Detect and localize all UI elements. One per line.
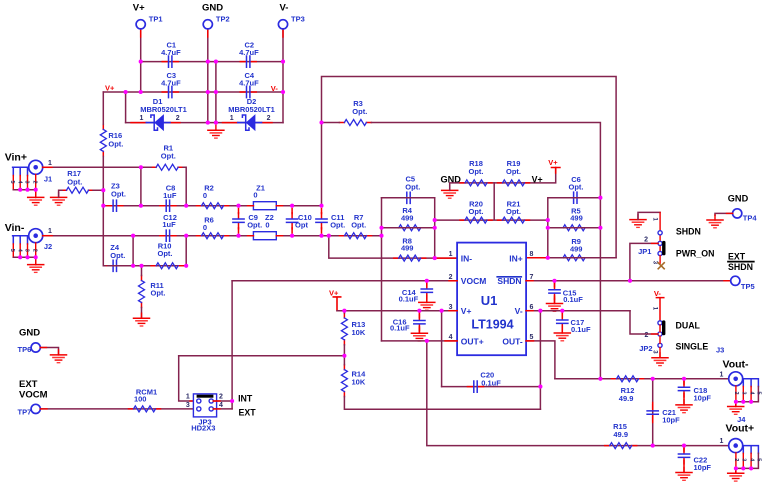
- svg-text:1: 1: [652, 218, 658, 222]
- wire R1 bypass loop: [141, 167, 186, 205]
- wire R4 row: [382, 227, 435, 229]
- testpoint TP1: [136, 20, 145, 29]
- svg-text:5: 5: [756, 458, 762, 461]
- ground (C18): [676, 400, 692, 413]
- svg-text:49.9: 49.9: [613, 430, 628, 439]
- svg-text:Opt.: Opt.: [247, 220, 262, 229]
- wire TP7 to RCM1 to JP3: [40, 408, 196, 410]
- wire R13 column: [343, 311, 345, 356]
- svg-text:Opt: Opt: [295, 220, 308, 229]
- wire OUT- feedback column: [599, 198, 601, 379]
- svg-text:Opt.: Opt.: [108, 139, 123, 148]
- svg-text:TP1: TP1: [149, 15, 163, 24]
- wire V+ testpoint column: [140, 29, 142, 92]
- wire D1 anode branch: [125, 92, 127, 123]
- wire R14 column and bottom row to V-: [344, 356, 540, 409]
- svg-text:Opt.: Opt.: [506, 167, 521, 176]
- wire R3 row: [322, 123, 601, 198]
- svg-text:GND: GND: [19, 328, 40, 339]
- svg-text:2: 2: [644, 237, 648, 244]
- svg-text:0.1uF: 0.1uF: [399, 295, 419, 304]
- svg-text:Opt.: Opt.: [330, 220, 345, 229]
- ground (C14): [419, 297, 435, 310]
- svg-text:10pF: 10pF: [694, 463, 712, 472]
- svg-text:OUT+: OUT+: [461, 336, 484, 346]
- svg-text:GND: GND: [202, 3, 223, 14]
- wire R20 R21 row: [435, 183, 548, 220]
- svg-text:2: 2: [644, 332, 648, 339]
- svg-text:Opt.: Opt.: [110, 251, 125, 260]
- svg-text:MBR0520LT1: MBR0520LT1: [228, 105, 275, 114]
- capacitor C16 0.1uF: [390, 311, 425, 333]
- wire C3 C4 row (V+ to V-): [103, 91, 283, 93]
- wire R16 column (V+ tap down to input network): [103, 92, 107, 266]
- svg-text:1: 1: [48, 160, 52, 167]
- wire VOCM column to JP3: [231, 281, 233, 409]
- svg-text:4: 4: [16, 249, 22, 253]
- svg-text:TP6: TP6: [18, 345, 32, 354]
- capacitor C17 0.1uF: [557, 311, 591, 334]
- ground (JP1): [630, 215, 646, 228]
- resistor R3 Opt.: [339, 99, 371, 126]
- ground (R11): [134, 313, 150, 326]
- svg-text:4: 4: [449, 334, 453, 341]
- capacitor C14 0.1uF: [399, 281, 433, 304]
- svg-text:49.9: 49.9: [619, 394, 634, 403]
- resistor R4 499: [394, 206, 426, 231]
- wire middle ground column: [215, 62, 217, 123]
- svg-text:0.1uF: 0.1uF: [481, 378, 501, 387]
- svg-text:5: 5: [9, 249, 15, 252]
- capacitor C2 4.7uF: [239, 40, 259, 67]
- testpoint TP2: [203, 20, 212, 29]
- wire Vin+ processed row: [103, 205, 321, 207]
- svg-text:MBR0520LT1: MBR0520LT1: [140, 105, 187, 114]
- svg-text:VOCM: VOCM: [19, 389, 48, 400]
- svg-text:EXT: EXT: [239, 407, 257, 417]
- ground (TP6): [51, 350, 67, 363]
- connector J4 Vout+: [720, 415, 762, 473]
- svg-text:VOCM: VOCM: [461, 276, 487, 286]
- ground (J1 shield): [28, 192, 44, 205]
- svg-text:5: 5: [9, 181, 15, 184]
- svg-text:SHDN: SHDN: [728, 262, 753, 272]
- resistor R14 10K: [341, 365, 366, 397]
- node EXT VOCM: [19, 379, 48, 401]
- svg-text:Opt.: Opt.: [111, 189, 126, 198]
- resistor R2 0: [197, 183, 229, 208]
- power V- flag (JP2): [654, 289, 664, 321]
- capacitor C8 1uF: [160, 183, 177, 211]
- svg-text:V+: V+: [329, 288, 339, 297]
- wire JP3 row to R13/R14: [179, 355, 345, 357]
- wire diode row: [126, 122, 283, 124]
- svg-text:Opt.: Opt.: [469, 167, 484, 176]
- svg-text:10pF: 10pF: [694, 394, 712, 403]
- svg-text:TP3: TP3: [291, 15, 305, 24]
- svg-text:0: 0: [203, 191, 207, 200]
- svg-text:10K: 10K: [352, 328, 366, 337]
- svg-text:Opt.: Opt.: [67, 177, 82, 186]
- svg-text:4.7uF: 4.7uF: [239, 79, 259, 88]
- svg-text:EXT: EXT: [728, 252, 746, 262]
- ground (R18 left): [442, 185, 458, 198]
- node EXT SHDN: [728, 252, 754, 273]
- svg-text:HD2X3: HD2X3: [191, 424, 215, 433]
- ground (J2 shield): [28, 260, 44, 273]
- svg-text:5: 5: [756, 392, 762, 395]
- wire V- testpoint column: [282, 29, 284, 123]
- resistor R18 Opt.: [460, 159, 492, 186]
- wire C20 left column (V+ tap): [441, 311, 443, 387]
- svg-text:499: 499: [570, 244, 583, 253]
- svg-text:2: 2: [449, 274, 453, 281]
- capacitor C4 4.7uF: [239, 71, 259, 98]
- resistor R9 499: [558, 237, 590, 261]
- op-amp U1 LT1994: [457, 243, 526, 356]
- connector J1 Vin+: [5, 151, 53, 197]
- svg-text:2: 2: [733, 392, 739, 395]
- svg-text:EXT: EXT: [19, 379, 38, 390]
- svg-text:0.1uF: 0.1uF: [571, 325, 591, 334]
- resistor R10 Opt.: [151, 241, 183, 268]
- svg-text:499: 499: [401, 213, 414, 222]
- svg-text:V-: V-: [271, 84, 279, 93]
- wire R11 to ground: [141, 266, 143, 318]
- ferrite Z2 Opt.0: [248, 213, 283, 240]
- wire OUT- pin5 to R12: [526, 341, 555, 379]
- wire V+ pin3 row: [337, 310, 457, 312]
- ground (TP4): [707, 215, 723, 228]
- capacitor C10 Opt: [287, 209, 312, 234]
- power V+ flag (R13 / pin3): [329, 288, 341, 310]
- resistor R15 49.9: [605, 422, 637, 448]
- svg-text:Opt.: Opt.: [352, 107, 367, 116]
- svg-text:1: 1: [186, 394, 190, 401]
- ground (C17): [554, 328, 570, 341]
- svg-text:1: 1: [48, 228, 52, 235]
- wire JP2 pin2 to V-: [630, 311, 658, 334]
- wire SHDN pin7 row to TP5: [526, 280, 731, 282]
- wire R10 loop: [108, 236, 187, 266]
- svg-text:499: 499: [570, 214, 583, 223]
- capacitor C15 0.1uF: [549, 281, 583, 304]
- svg-text:Opt.: Opt.: [161, 152, 176, 161]
- svg-text:0: 0: [203, 223, 207, 232]
- svg-text:J1: J1: [44, 174, 52, 183]
- wire IN- node column: [435, 198, 457, 258]
- svg-text:JP2: JP2: [639, 344, 652, 353]
- svg-text:3: 3: [741, 458, 747, 461]
- resistor R21 Opt.: [498, 199, 530, 223]
- ground (C22): [676, 468, 692, 481]
- svg-text:Vin+: Vin+: [5, 151, 27, 163]
- wire top feedback loop: [322, 77, 617, 258]
- svg-text:1: 1: [652, 307, 658, 311]
- svg-text:LT1994: LT1994: [471, 317, 513, 331]
- svg-text:DUAL: DUAL: [676, 320, 701, 330]
- wire OUT+ to Vout+ bottom run: [427, 341, 728, 446]
- resistor R1 Opt.: [151, 144, 183, 171]
- ferrite Z1 0: [248, 183, 283, 209]
- capacitor C21 10pF: [647, 379, 680, 446]
- diode D1 MBR0520LT1: [140, 97, 187, 130]
- capacitor C12 1uF: [160, 213, 177, 241]
- wire R5 row: [548, 227, 601, 229]
- wire V- pin6 row: [526, 310, 630, 312]
- wire Vin- row: [43, 235, 382, 237]
- testpoint TP4: [733, 209, 758, 223]
- wire JP3 pin1 branch: [179, 356, 197, 401]
- svg-text:OUT-: OUT-: [502, 336, 522, 346]
- wire VOCM net row: [232, 280, 457, 282]
- svg-text:Opt.: Opt.: [469, 207, 484, 216]
- svg-text:499: 499: [401, 244, 414, 253]
- svg-text:100: 100: [134, 395, 147, 404]
- wire R17 to ground / to node: [59, 190, 104, 197]
- svg-text:2: 2: [267, 115, 271, 122]
- resistor R11 Opt.: [139, 276, 166, 308]
- svg-text:V+: V+: [133, 3, 145, 14]
- svg-text:1uF: 1uF: [162, 220, 176, 229]
- svg-text:TP2: TP2: [216, 15, 230, 24]
- svg-text:3: 3: [24, 249, 30, 252]
- svg-text:Opt.: Opt.: [151, 289, 166, 298]
- svg-text:V-: V-: [654, 289, 662, 298]
- svg-text:Vout-: Vout-: [723, 359, 750, 371]
- wire C1 C2 row: [141, 61, 283, 63]
- svg-text:V+: V+: [548, 158, 558, 167]
- svg-text:1uF: 1uF: [163, 191, 177, 200]
- resistor R16 Opt.: [100, 124, 123, 156]
- capacitor Z3 Opt.: [107, 181, 126, 211]
- testpoint TP5: [731, 276, 755, 291]
- svg-text:5: 5: [530, 334, 534, 341]
- svg-text:Vin-: Vin-: [5, 222, 25, 234]
- wire TP4 to ground: [715, 213, 733, 215]
- svg-text:SHDN: SHDN: [497, 276, 521, 286]
- capacitor C5 Opt.: [401, 175, 421, 204]
- svg-text:V+: V+: [105, 84, 115, 93]
- wire JP3 pin2/pin4 to VOCM column: [213, 401, 232, 409]
- svg-text:INT: INT: [238, 394, 253, 404]
- ground (JP2): [652, 353, 668, 366]
- svg-text:SHDN: SHDN: [676, 226, 701, 236]
- svg-text:4: 4: [219, 402, 223, 409]
- svg-text:6: 6: [530, 304, 534, 311]
- svg-text:10K: 10K: [352, 377, 366, 386]
- svg-text:V+: V+: [532, 175, 543, 185]
- svg-text:TP7: TP7: [18, 407, 32, 416]
- svg-text:JP1: JP1: [638, 247, 651, 256]
- svg-text:Opt.: Opt.: [158, 249, 173, 258]
- power V+ flag (above R19): [548, 158, 560, 173]
- capacitor C3 4.7uF: [161, 71, 181, 98]
- svg-text:10pF: 10pF: [662, 415, 680, 424]
- ground (J4 shield): [728, 468, 744, 481]
- wire IN+ pin8 row: [526, 257, 616, 259]
- resistor RCM1 100: [129, 387, 161, 412]
- ground (J3 shield): [728, 402, 744, 415]
- wire feedback node column (to OUT+): [381, 198, 383, 341]
- diode D2 MBR0520LT1: [228, 97, 275, 130]
- capacitor C11 Opt.: [316, 209, 345, 234]
- capacitor C20 0.1uF: [442, 371, 541, 393]
- wire C5 row: [382, 197, 435, 199]
- svg-text:2: 2: [31, 181, 37, 184]
- svg-text:2: 2: [219, 394, 223, 401]
- ground (C16): [411, 328, 427, 341]
- svg-text:1: 1: [449, 251, 453, 258]
- wire TP6 to ground: [40, 348, 58, 355]
- svg-text:Opt.: Opt.: [351, 220, 366, 229]
- svg-text:4.7uF: 4.7uF: [161, 79, 181, 88]
- svg-text:IN+: IN+: [509, 253, 523, 263]
- jumper JP2 DUAL/SINGLE: [639, 307, 665, 358]
- svg-text:3: 3: [449, 304, 453, 311]
- jumper JP3 HD2X3: [186, 394, 223, 433]
- svg-text:Opt.: Opt.: [405, 182, 420, 191]
- testpoint TP7: [18, 404, 41, 416]
- svg-text:2: 2: [31, 249, 37, 252]
- testpoint TP6: [18, 343, 41, 354]
- capacitor C1 4.7uF: [161, 40, 181, 67]
- svg-text:Vout+: Vout+: [726, 423, 755, 435]
- ground (R17): [51, 192, 67, 205]
- resistor R17 Opt.: [62, 169, 94, 193]
- wire J1 pin1 row: [43, 166, 141, 168]
- svg-text:V-: V-: [280, 3, 289, 14]
- capacitor C6 Opt.: [567, 175, 583, 203]
- svg-text:GND: GND: [728, 193, 749, 203]
- svg-text:Opt.: Opt.: [569, 183, 584, 192]
- jumper JP1 PWR_ON: [638, 212, 666, 268]
- svg-text:1: 1: [230, 115, 234, 122]
- wire R12 output row: [555, 378, 729, 380]
- svg-text:J2: J2: [44, 242, 52, 251]
- svg-text:IN-: IN-: [461, 253, 473, 263]
- svg-text:0.1uF: 0.1uF: [563, 295, 583, 304]
- svg-text:0.1uF: 0.1uF: [390, 324, 410, 333]
- wire V- column to C20/R14: [539, 311, 541, 410]
- ground (diode row): [208, 125, 224, 138]
- resistor R20 Opt.: [460, 199, 492, 223]
- svg-text:V+: V+: [461, 306, 472, 316]
- connector J3 Vout-: [716, 346, 762, 407]
- svg-text:2: 2: [176, 115, 180, 122]
- svg-text:3: 3: [652, 350, 658, 354]
- svg-text:0: 0: [253, 190, 257, 199]
- resistor R19 Opt.: [498, 159, 530, 186]
- resistor R8 499: [394, 236, 426, 261]
- svg-text:1: 1: [720, 371, 724, 378]
- resistor R6 0: [197, 216, 229, 239]
- svg-text:J3: J3: [716, 346, 724, 355]
- svg-text:PWR_ON: PWR_ON: [676, 249, 715, 259]
- svg-text:TP5: TP5: [741, 282, 755, 291]
- svg-text:7: 7: [530, 274, 534, 281]
- svg-text:8: 8: [530, 251, 534, 258]
- svg-text:3: 3: [741, 392, 747, 395]
- connector J2 Vin-: [5, 222, 53, 265]
- wire R18 R19 row: [450, 168, 556, 191]
- wire R8 branch: [329, 236, 457, 258]
- svg-text:TP4: TP4: [743, 214, 758, 223]
- resistor R13 10K: [341, 313, 365, 345]
- capacitor C18 10pF: [678, 379, 711, 405]
- svg-text:2: 2: [733, 458, 739, 461]
- resistor R12 49.9: [612, 376, 644, 403]
- svg-text:SINGLE: SINGLE: [676, 342, 709, 352]
- capacitor C22 10pF: [678, 446, 711, 473]
- svg-text:3: 3: [652, 261, 658, 265]
- svg-text:V-: V-: [515, 306, 523, 316]
- capacitor Z4 Opt.: [107, 243, 126, 271]
- svg-text:4.7uF: 4.7uF: [239, 48, 259, 57]
- svg-text:1: 1: [140, 115, 144, 122]
- resistor R7 Opt.: [340, 213, 372, 239]
- svg-text:4.7uF: 4.7uF: [161, 48, 181, 57]
- wire C6 row + left column: [548, 198, 601, 258]
- svg-text:Opt.: Opt.: [506, 207, 521, 216]
- testpoint TP3: [278, 20, 287, 29]
- wire GND testpoint column: [207, 29, 209, 123]
- svg-text:3: 3: [24, 181, 30, 184]
- ground (C15): [547, 299, 563, 312]
- svg-text:0: 0: [265, 220, 269, 229]
- wire JP1 pin2 to TP5 row: [630, 243, 658, 280]
- svg-text:4: 4: [16, 181, 22, 185]
- svg-text:U1: U1: [481, 293, 498, 308]
- capacitor C9 Opt.: [233, 209, 262, 234]
- wire OUT+ pin4 row: [382, 340, 458, 342]
- resistor R5 499: [558, 206, 590, 231]
- svg-text:3: 3: [186, 402, 190, 409]
- svg-text:1: 1: [720, 438, 724, 445]
